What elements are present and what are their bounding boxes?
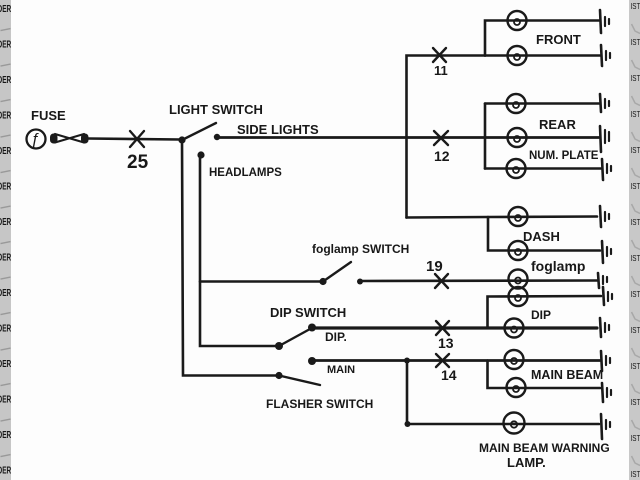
svg-text:MAIN BEAM WARNING: MAIN BEAM WARNING [479,441,610,455]
svg-text:IST: IST [631,253,640,263]
svg-text:FRONT: FRONT [536,32,581,47]
wire side lights feed [217,136,599,139]
svg-text:IST: IST [631,37,640,47]
dip contact [308,324,316,332]
earth rear 1 [600,94,609,112]
foglamp switch contact [357,279,363,285]
earth warning lamp [601,414,610,439]
svg-text:DIP SWITCH: DIP SWITCH [270,305,346,320]
svg-text:FLASHER SWITCH: FLASHER SWITCH [266,397,373,411]
svg-text:NUM. PLATE: NUM. PLATE [529,150,599,162]
connector X 12 [434,131,448,145]
svg-text:DER: DER [0,180,12,192]
svg-text:IST: IST [631,1,640,11]
earth front 1 [600,10,609,33]
wire headlamps bus down [200,155,279,346]
wire dash bus [488,217,600,251]
earth dash 2 [602,241,611,263]
wire foglamp feed stub [200,280,322,283]
svg-text:foglamp: foglamp [531,258,585,274]
dip switch lever [279,329,310,346]
bulb main 1 [505,350,524,369]
connector X 11 [433,48,446,62]
foglamp switch lever [323,262,351,282]
svg-text:DER: DER [0,109,12,121]
svg-text:IST: IST [631,325,640,335]
earth main 1 [601,351,610,371]
wire top distribution bus [407,56,486,218]
bulb dash 2 [509,241,528,260]
earth dip 1 [603,287,612,305]
svg-text:LAMP.: LAMP. [507,455,546,470]
svg-text:IST: IST [631,145,640,155]
svg-text:12: 12 [434,148,450,164]
svg-text:SIDE LIGHTS: SIDE LIGHTS [237,122,319,137]
svg-text:MAIN BEAM: MAIN BEAM [531,368,603,382]
connector X 14 [436,354,449,367]
svg-text:25: 25 [127,152,149,173]
svg-text:ƒ: ƒ [31,131,40,148]
foglamp switch pivot [319,278,326,285]
junction warning corner [405,421,411,427]
right watermark strip [629,0,640,480]
wire front2 row [485,54,600,57]
wire rear bus [484,104,487,169]
svg-text:13: 13 [438,335,454,351]
light switch lever [182,123,216,140]
main contact [308,357,316,365]
earth rear 2 num plate [600,126,609,152]
junction main/warning [404,358,410,364]
svg-text:IST: IST [631,469,640,479]
wire front pair bus [485,21,599,56]
svg-text:DER: DER [0,73,12,85]
light switch contact SIDE LIGHTS [214,134,220,140]
wire rear3 row [485,167,601,170]
earth rear 3 [602,159,611,180]
dip switch pivot [275,342,283,350]
bulb number plate [507,159,526,178]
wire dip bus [488,296,602,328]
connector X 25 [130,131,144,147]
wire main feed bus down to flasher [182,140,279,376]
wire fuse to switch [88,139,180,140]
svg-text:IST: IST [631,433,640,443]
svg-text:IST: IST [631,181,640,191]
svg-text:IST: IST [631,289,640,299]
fuse F1 circle [27,130,46,149]
svg-text:DER: DER [0,322,12,334]
earth dash 1 [600,206,609,227]
wire dip circuit [312,326,597,329]
svg-text:LIGHT SWITCH: LIGHT SWITCH [169,102,263,117]
svg-text:DIP.: DIP. [325,330,347,344]
svg-text:11: 11 [434,63,448,78]
svg-text:foglamp SWITCH: foglamp SWITCH [312,242,409,256]
flasher switch pivot [275,372,282,379]
bulb dip 1 [509,287,528,306]
svg-text:REAR: REAR [539,117,576,132]
svg-text:14: 14 [441,367,457,383]
wire main beam circuit [312,359,600,362]
wire warning lamp branch [407,361,599,425]
svg-text:DIP: DIP [531,308,551,322]
svg-text:MAIN: MAIN [327,364,355,376]
earth foglamp [598,273,607,288]
svg-text:IST: IST [631,73,640,83]
svg-text:IST: IST [631,361,640,371]
flasher switch lever [279,376,320,386]
wire rear1 row [485,102,599,105]
bulbs [504,11,528,434]
svg-text:DER: DER [0,215,12,227]
left watermark strip [0,0,12,480]
wire dash feed [407,217,598,218]
svg-text:DER: DER [0,38,12,50]
svg-text:DER: DER [0,357,12,369]
wire foglamp circuit [360,279,597,282]
fuse element bowtie [50,134,89,144]
light switch pivot junction [178,136,185,143]
wire main2 bus [488,361,601,389]
svg-text:19: 19 [426,258,443,275]
svg-text:DER: DER [0,2,12,14]
svg-text:DER: DER [0,393,12,405]
earth front 2 [601,45,610,66]
bulb front 2 [508,46,527,65]
svg-text:IST: IST [631,217,640,227]
svg-text:DER: DER [0,251,12,263]
bulb main beam warning lamp [504,413,525,434]
connector X 19 [435,274,448,288]
svg-text:DER: DER [0,428,12,440]
earth main 2 [602,383,611,402]
svg-text:DER: DER [0,286,12,298]
svg-text:DASH: DASH [523,229,560,244]
svg-text:IST: IST [631,397,640,407]
bulb front 1 [508,11,527,30]
bulb dip 2 [505,319,524,338]
light switch contact HEADLAMPS [197,151,204,158]
svg-text:DER: DER [0,144,12,156]
svg-text:FUSE: FUSE [31,108,66,123]
svg-text:IST: IST [631,109,640,119]
bulb dash 1 [509,207,528,226]
bulb rear 2 [508,128,527,147]
bulb rear 1 [507,94,526,113]
connector X 13 [436,321,449,335]
bulb main 2 [507,378,526,397]
bulb foglamp [509,270,528,289]
earth symbols [598,10,612,439]
svg-text:HEADLAMPS: HEADLAMPS [209,167,282,179]
svg-text:DER: DER [0,464,12,476]
earth dip 2 [600,318,609,337]
